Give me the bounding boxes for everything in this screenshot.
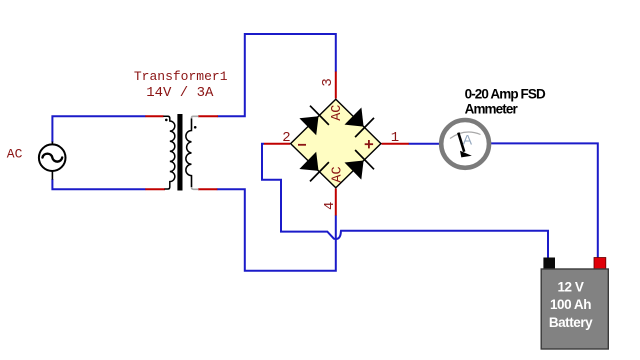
svg-text:Ammeter: Ammeter: [465, 101, 519, 116]
svg-text:AC: AC: [330, 105, 345, 121]
svg-text:4: 4: [322, 202, 338, 210]
svg-text:12 V: 12 V: [558, 280, 584, 295]
svg-text:Transformer1: Transformer1: [134, 69, 228, 84]
svg-text:2: 2: [282, 130, 290, 146]
svg-text:1: 1: [391, 130, 399, 146]
svg-text:Battery: Battery: [549, 315, 593, 330]
svg-text:AC: AC: [330, 166, 345, 182]
svg-text:AC: AC: [7, 147, 23, 162]
svg-text:A: A: [463, 131, 473, 147]
svg-text:14V / 3A: 14V / 3A: [146, 85, 214, 101]
svg-text:100 Ah: 100 Ah: [550, 297, 591, 312]
svg-text:0-20 Amp FSD: 0-20 Amp FSD: [465, 86, 546, 101]
svg-text:3: 3: [320, 78, 336, 86]
